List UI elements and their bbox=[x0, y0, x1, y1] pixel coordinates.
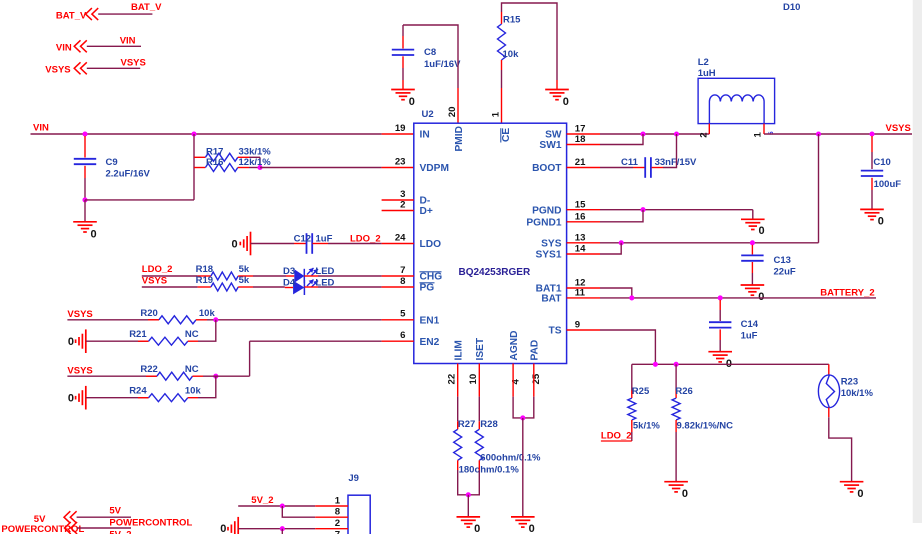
svg-text:9.82k/1%/NC: 9.82k/1%/NC bbox=[677, 421, 734, 432]
svg-text:LDO_2: LDO_2 bbox=[350, 233, 381, 244]
svg-text:180ohm/0.1%: 180ohm/0.1% bbox=[459, 465, 520, 476]
wire D4 to pin 8 bbox=[318, 286, 382, 288]
svg-text:LDO_2: LDO_2 bbox=[142, 264, 173, 275]
resistor R19 bbox=[198, 286, 211, 288]
node R27-R28 junction bbox=[466, 492, 471, 497]
resistor R22 bbox=[146, 375, 157, 377]
node C9 bottom junction bbox=[82, 197, 87, 202]
svg-text:12k/1%: 12k/1% bbox=[239, 157, 272, 168]
svg-text:VIN: VIN bbox=[120, 36, 136, 47]
wire to ILIM ground bbox=[467, 495, 469, 517]
svg-text:R16: R16 bbox=[206, 157, 223, 168]
svg-text:1: 1 bbox=[753, 132, 764, 138]
node BAT1-BAT junction bbox=[629, 295, 634, 300]
pin 19 stub IN bbox=[382, 133, 414, 135]
wire J9 pin1 bbox=[238, 505, 315, 507]
svg-text:0: 0 bbox=[563, 96, 569, 108]
svg-text:19: 19 bbox=[395, 123, 406, 134]
wire SYS bbox=[600, 242, 819, 244]
svg-text:PMID: PMID bbox=[454, 126, 465, 151]
wire EN2 row bbox=[250, 340, 382, 342]
svg-text:10k/1%: 10k/1% bbox=[841, 388, 874, 399]
pin 25 stub PAD bbox=[533, 364, 535, 397]
svg-text:16: 16 bbox=[575, 211, 586, 222]
svg-text:PG: PG bbox=[420, 283, 435, 294]
node R26 junction bbox=[674, 362, 679, 367]
wire C11 to SW bbox=[663, 134, 677, 168]
svg-text:1uF: 1uF bbox=[741, 330, 758, 341]
resistor R25 bbox=[631, 364, 633, 390]
wire VIN row bbox=[31, 133, 382, 135]
wire VDPM bbox=[260, 167, 382, 169]
svg-text:2: 2 bbox=[699, 132, 710, 137]
wire EN2 down bbox=[249, 341, 251, 376]
svg-text:VIN: VIN bbox=[56, 42, 72, 53]
svg-text:3: 3 bbox=[400, 189, 405, 200]
wire C8 to PMID bbox=[403, 25, 458, 88]
svg-text:5k: 5k bbox=[239, 264, 250, 275]
svg-text:C14: C14 bbox=[741, 319, 759, 330]
svg-text:VSYS: VSYS bbox=[67, 309, 92, 320]
wire C9 bottom bbox=[84, 178, 86, 200]
svg-text:SW: SW bbox=[545, 130, 562, 141]
svg-text:8: 8 bbox=[400, 276, 406, 287]
node SYS-C13 junction bbox=[750, 240, 755, 245]
svg-text:C12: C12 bbox=[294, 234, 311, 245]
svg-text:R18: R18 bbox=[196, 264, 213, 275]
svg-text:18: 18 bbox=[575, 134, 586, 145]
wire J9 pin7 partial bbox=[281, 529, 283, 534]
wire BAT1 bbox=[600, 288, 632, 298]
resistor R26 bbox=[675, 364, 677, 390]
ground sideways R21 row bbox=[85, 329, 87, 353]
ground sideways LDO row bbox=[250, 232, 252, 256]
wire BOOT bbox=[600, 167, 633, 169]
svg-text:R25: R25 bbox=[632, 386, 650, 397]
svg-text:0: 0 bbox=[68, 392, 74, 404]
svg-text:33nF/15V: 33nF/15V bbox=[655, 157, 697, 168]
svg-text:21: 21 bbox=[575, 157, 586, 168]
svg-text:0: 0 bbox=[758, 291, 764, 303]
wire LDO to pin 24 bbox=[328, 243, 382, 245]
ground under C14 bbox=[708, 351, 732, 353]
pin 22 stub ILIM bbox=[457, 364, 459, 397]
svg-text:25: 25 bbox=[531, 373, 542, 384]
svg-text:VDPM: VDPM bbox=[420, 163, 449, 174]
wire PGND to ground bbox=[752, 210, 754, 220]
pin 8 stub PG bbox=[382, 286, 414, 288]
wire BAT / BATTERY_2 bbox=[600, 297, 876, 299]
node J9 pin1 junction bbox=[280, 503, 285, 508]
wire PGND1 bbox=[600, 210, 643, 222]
wire AGND to ground bbox=[522, 418, 524, 517]
svg-text:D10: D10 bbox=[783, 2, 800, 13]
wire PG row left bbox=[142, 286, 198, 288]
wire CHG row left bbox=[142, 275, 198, 277]
svg-text:5V: 5V bbox=[109, 505, 121, 516]
svg-text:EN2: EN2 bbox=[420, 337, 440, 348]
wire C9 to ground bbox=[84, 200, 86, 222]
window edge strip bbox=[913, 0, 922, 523]
wire R28 bottom bbox=[468, 470, 479, 495]
resistor R20 bbox=[159, 316, 196, 324]
svg-text:5V_2: 5V_2 bbox=[109, 530, 131, 534]
ground sideways R24 row bbox=[85, 386, 87, 410]
wire LDO row bbox=[251, 243, 295, 245]
svg-text:R21: R21 bbox=[129, 329, 147, 340]
svg-text:U2: U2 bbox=[422, 109, 434, 120]
pin 6 stub EN2 bbox=[382, 340, 414, 342]
wire R22 row bbox=[67, 375, 156, 377]
svg-text:10k: 10k bbox=[185, 386, 202, 397]
svg-text:17: 17 bbox=[575, 124, 586, 135]
svg-text:CHG: CHG bbox=[420, 272, 443, 283]
svg-text:10k: 10k bbox=[199, 308, 216, 319]
pin stub J9 pin8 bbox=[315, 516, 348, 518]
ground for R15 bbox=[556, 80, 558, 90]
capacitor C8 bbox=[402, 25, 404, 36]
wire R21 to EN1 node bbox=[198, 320, 216, 341]
svg-text:AGND: AGND bbox=[509, 331, 520, 361]
capacitor C10 bbox=[871, 136, 873, 152]
pin 23 stub VDPM bbox=[382, 167, 414, 169]
ground under C13 bbox=[741, 284, 765, 286]
wire BAT_V net bbox=[98, 13, 152, 15]
svg-text:L2: L2 bbox=[698, 57, 709, 68]
node VSYS-C10 junction bbox=[869, 131, 874, 136]
svg-text:8: 8 bbox=[335, 507, 341, 518]
pin stub L2 pin2 bbox=[708, 124, 710, 134]
svg-text:23: 23 bbox=[395, 156, 406, 167]
pin 15 stub PGND bbox=[567, 209, 600, 211]
svg-text:0: 0 bbox=[91, 229, 97, 241]
node AGND-PAD junction bbox=[520, 415, 525, 420]
op-amp U2 IC body BQ24253RGER bbox=[414, 123, 567, 363]
LED D3 bbox=[286, 275, 294, 277]
capacitor C9 bbox=[84, 136, 86, 158]
ground under C9 bbox=[73, 221, 97, 223]
svg-text:11: 11 bbox=[575, 288, 586, 299]
svg-text:2: 2 bbox=[400, 199, 405, 210]
ground under R26 bbox=[664, 481, 688, 483]
svg-text:LED: LED bbox=[315, 266, 334, 277]
svg-text:IN: IN bbox=[420, 130, 430, 141]
svg-text:R27: R27 bbox=[458, 419, 475, 430]
svg-text:EN1: EN1 bbox=[420, 316, 440, 327]
svg-text:PAD: PAD bbox=[530, 340, 541, 361]
ground PGND bbox=[741, 218, 765, 220]
svg-text:D3: D3 bbox=[283, 266, 295, 277]
capacitor C12 bbox=[294, 243, 306, 245]
svg-text:1: 1 bbox=[335, 495, 341, 506]
svg-text:C11: C11 bbox=[621, 157, 639, 168]
node PGND junction bbox=[640, 207, 645, 212]
svg-text:R26: R26 bbox=[675, 386, 692, 397]
svg-text:600ohm/0.1%: 600ohm/0.1% bbox=[480, 453, 541, 464]
ground sideways J9 pin2 bbox=[237, 517, 239, 534]
wire ISET to R28 bbox=[478, 397, 480, 422]
wire AGND down bbox=[513, 397, 523, 418]
svg-text:D4: D4 bbox=[283, 277, 296, 288]
svg-text:BAT: BAT bbox=[541, 294, 562, 305]
capacitor C14 bbox=[719, 300, 721, 310]
svg-text:4: 4 bbox=[510, 379, 521, 385]
wire TS bbox=[600, 330, 655, 364]
wire C9 to divider bbox=[85, 199, 194, 201]
svg-text:C13: C13 bbox=[774, 255, 791, 266]
wire J9 pin2 bbox=[238, 528, 315, 530]
svg-text:22uF: 22uF bbox=[774, 267, 796, 278]
svg-text:5V_2: 5V_2 bbox=[251, 495, 273, 506]
node TS junction bbox=[653, 362, 658, 367]
svg-text:C8: C8 bbox=[424, 47, 436, 58]
svg-text:R19: R19 bbox=[196, 275, 213, 286]
pin 7 stub CHG bbox=[382, 275, 414, 277]
pin 4 stub AGND bbox=[512, 364, 514, 397]
resistor R15 bbox=[502, 3, 558, 80]
svg-text:10: 10 bbox=[468, 374, 479, 385]
svg-text:7: 7 bbox=[335, 530, 340, 534]
svg-text:10k: 10k bbox=[503, 49, 520, 60]
svg-text:24: 24 bbox=[395, 232, 406, 243]
svg-text:VSYS: VSYS bbox=[142, 275, 167, 286]
svg-text:C9: C9 bbox=[106, 157, 118, 168]
ground under AGND PAD bbox=[511, 516, 535, 518]
wire VIN port net bbox=[87, 45, 141, 47]
svg-text:R20: R20 bbox=[140, 308, 157, 319]
pin 21 stub BOOT bbox=[567, 167, 600, 169]
wire R20 to pin 5 bbox=[207, 319, 382, 321]
svg-text:LDO: LDO bbox=[420, 239, 442, 250]
svg-text:R28: R28 bbox=[480, 419, 497, 430]
svg-text:CE: CE bbox=[501, 128, 512, 142]
wire R24 to R22 node bbox=[198, 376, 216, 398]
pin 1 stub CE bbox=[501, 88, 503, 123]
svg-text:D+: D+ bbox=[420, 206, 433, 217]
svg-text:VSYS: VSYS bbox=[886, 123, 911, 134]
svg-text:R22: R22 bbox=[140, 364, 157, 375]
wire VSYS to SYS vertical bbox=[818, 134, 820, 243]
svg-text:15: 15 bbox=[575, 199, 586, 210]
wire R24 row bbox=[86, 397, 149, 399]
pin 2 stub D+ bbox=[382, 210, 414, 212]
pin 5 stub EN1 bbox=[382, 319, 414, 321]
wire VSYS output bbox=[764, 133, 912, 135]
svg-text:BAT_V: BAT_V bbox=[56, 11, 87, 22]
svg-text:1: 1 bbox=[490, 111, 501, 117]
inductor L2 bbox=[698, 78, 775, 123]
wire J9 pin8 bbox=[282, 506, 315, 517]
pin 18 stub SW1 bbox=[567, 144, 600, 146]
resistor R27 bbox=[457, 421, 459, 429]
svg-text:0: 0 bbox=[220, 523, 226, 534]
capacitor C11 bbox=[633, 167, 645, 169]
svg-text:0: 0 bbox=[232, 238, 238, 250]
wire PGND bbox=[600, 209, 753, 211]
svg-text:0: 0 bbox=[857, 488, 863, 500]
pin 12 stub BAT1 bbox=[567, 287, 600, 289]
svg-text:1uF/16V: 1uF/16V bbox=[424, 59, 461, 70]
svg-text:NC: NC bbox=[185, 329, 199, 340]
svg-text:TS: TS bbox=[548, 326, 561, 337]
wire R22 to EN2 vertical bbox=[203, 375, 250, 377]
node SW-BOOT junction bbox=[674, 131, 679, 136]
svg-text:BQ24253RGER: BQ24253RGER bbox=[459, 267, 531, 278]
svg-text:VSYS: VSYS bbox=[45, 64, 70, 75]
pin 10 stub ISET bbox=[478, 364, 480, 397]
resistor R18 bbox=[198, 275, 211, 277]
svg-text:0: 0 bbox=[878, 216, 884, 228]
pin 17 stub SW bbox=[567, 133, 600, 135]
wire R19 to D4 bbox=[253, 286, 285, 288]
svg-text:ISET: ISET bbox=[475, 337, 486, 360]
pin 16 stub PGND1 bbox=[567, 221, 600, 223]
node J9 pin2 junction bbox=[280, 526, 285, 531]
wire SYS1 bbox=[600, 243, 621, 254]
resistor R17 bbox=[194, 156, 205, 158]
svg-text:0: 0 bbox=[474, 523, 480, 534]
wire SW1 bbox=[600, 134, 643, 145]
ground under C8 bbox=[391, 89, 415, 91]
node VIN-C9 junction bbox=[82, 131, 87, 136]
ground under R23 bbox=[840, 481, 864, 483]
svg-text:VSYS: VSYS bbox=[67, 365, 92, 376]
svg-text:NC: NC bbox=[185, 364, 199, 375]
svg-text:POWERCONTROL: POWERCONTROL bbox=[109, 518, 192, 529]
wire thermistor row bbox=[632, 363, 829, 365]
pin 14 stub SYS1 bbox=[567, 253, 600, 255]
capacitor C13 bbox=[751, 245, 753, 255]
pin 20 stub PMID bbox=[457, 88, 459, 123]
wire VSYS port net bbox=[87, 67, 140, 69]
svg-text:SYS1: SYS1 bbox=[535, 250, 561, 261]
pin 3 stub D- bbox=[382, 199, 414, 201]
svg-text:PGND1: PGND1 bbox=[526, 218, 561, 229]
svg-text:ILIM: ILIM bbox=[453, 340, 464, 360]
svg-text:0: 0 bbox=[68, 336, 74, 348]
resistor R28 bbox=[478, 421, 480, 429]
node SW-SW1 junction bbox=[640, 131, 645, 136]
svg-text:VSYS: VSYS bbox=[121, 58, 146, 69]
pin stub J9 pin2 bbox=[315, 528, 348, 530]
pin 24 stub LDO bbox=[382, 243, 414, 245]
node BAT-C14 junction bbox=[718, 295, 723, 300]
node SYS-SYS1 junction bbox=[619, 240, 624, 245]
svg-text:6: 6 bbox=[400, 330, 405, 341]
wire SW net bbox=[600, 133, 709, 135]
svg-text:13: 13 bbox=[575, 232, 586, 243]
wire R21 row bbox=[86, 340, 149, 342]
svg-text:R24: R24 bbox=[129, 386, 147, 397]
svg-text:14: 14 bbox=[575, 244, 586, 255]
svg-text:SW1: SW1 bbox=[539, 140, 561, 151]
svg-text:5k/1%: 5k/1% bbox=[633, 421, 660, 432]
svg-text:D-: D- bbox=[420, 196, 431, 207]
svg-text:5k: 5k bbox=[239, 275, 250, 286]
wire D3 to pin 7 bbox=[318, 275, 382, 277]
resistor R16 bbox=[194, 167, 205, 169]
svg-text:BOOT: BOOT bbox=[532, 163, 562, 174]
pin stub L2 pin1 bbox=[763, 124, 765, 134]
ground under C10 bbox=[860, 208, 884, 210]
pin 9 stub TS bbox=[567, 329, 600, 331]
svg-text:20: 20 bbox=[447, 107, 458, 118]
svg-text:9: 9 bbox=[575, 320, 580, 331]
wire R18 to D3 bbox=[253, 275, 286, 277]
wire divider vertical bbox=[193, 134, 195, 200]
svg-text:5: 5 bbox=[400, 309, 406, 320]
svg-text:1uH: 1uH bbox=[698, 68, 716, 79]
thermistor R23 bbox=[828, 364, 830, 375]
resistor R24 bbox=[138, 397, 149, 399]
node VIN-divider junction bbox=[191, 131, 196, 136]
svg-text:0: 0 bbox=[529, 523, 535, 534]
node VDPM junction bbox=[257, 165, 262, 170]
svg-text:C10: C10 bbox=[873, 157, 890, 168]
wire ILIM to R27 bbox=[457, 397, 459, 422]
svg-text:22: 22 bbox=[447, 374, 458, 385]
svg-text:0: 0 bbox=[759, 225, 765, 237]
svg-text:R23: R23 bbox=[841, 376, 858, 387]
svg-text:VIN: VIN bbox=[33, 123, 49, 134]
node EN1 junction bbox=[213, 317, 218, 322]
wire R27 bottom bbox=[458, 470, 469, 495]
svg-text:SYS: SYS bbox=[541, 239, 562, 250]
wire 5V bbox=[77, 516, 131, 518]
svg-text:R15: R15 bbox=[503, 15, 521, 26]
wire POWERCONTROL bbox=[77, 527, 131, 529]
wire EN1 row bbox=[67, 319, 158, 321]
svg-text:0: 0 bbox=[682, 488, 688, 500]
node R22 junction bbox=[213, 374, 218, 379]
svg-text:100uF: 100uF bbox=[874, 179, 902, 190]
resistor R21 bbox=[138, 340, 149, 342]
svg-text:PGND: PGND bbox=[532, 205, 561, 216]
pin 11 stub BAT bbox=[567, 297, 600, 299]
wire PAD down bbox=[523, 397, 534, 418]
svg-text:2.2uF/16V: 2.2uF/16V bbox=[106, 168, 151, 179]
pin stub J9 pin1 bbox=[315, 505, 348, 507]
wire R23 to ground bbox=[829, 417, 852, 482]
ground under R27 R28 bbox=[457, 516, 481, 518]
node VSYS-SYS junction bbox=[816, 131, 821, 136]
svg-text:BATTERY_2: BATTERY_2 bbox=[820, 287, 874, 298]
svg-text:7: 7 bbox=[400, 265, 405, 276]
pin 13 stub SYS bbox=[567, 242, 600, 244]
svg-text:2: 2 bbox=[335, 518, 340, 529]
svg-text:LDO_2: LDO_2 bbox=[601, 431, 632, 442]
svg-text:0: 0 bbox=[409, 96, 415, 108]
LED D4 bbox=[285, 287, 293, 289]
svg-text:J9: J9 bbox=[348, 473, 359, 484]
svg-text:BAT_V: BAT_V bbox=[131, 2, 162, 13]
